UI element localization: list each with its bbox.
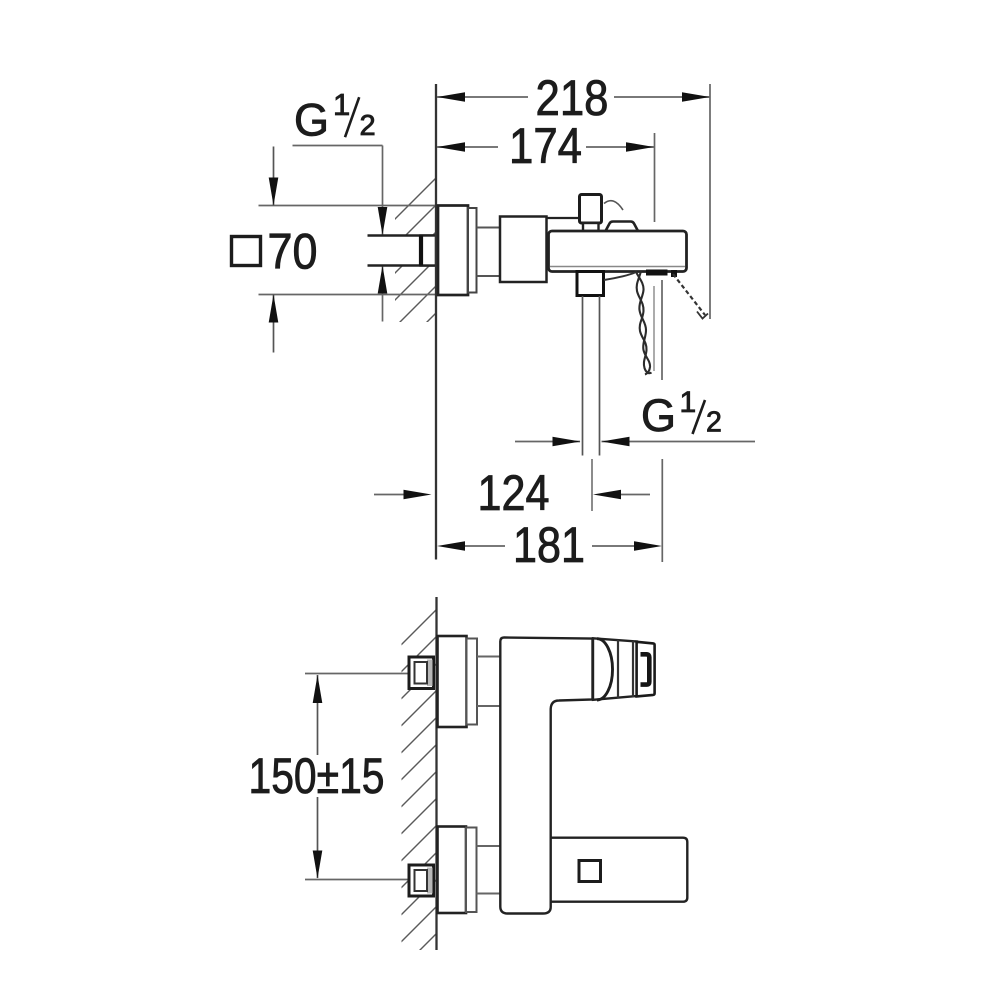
svg-text:174: 174 <box>509 118 582 174</box>
main body (top view) <box>549 231 687 272</box>
escutcheon (top view) <box>438 206 468 296</box>
valve block <box>500 217 547 283</box>
svg-text:2: 2 <box>360 110 376 142</box>
lever tip hook <box>697 312 708 319</box>
spout opening (dark band) <box>646 270 668 276</box>
handle swing arc <box>604 201 623 210</box>
dim 70 upper arrow <box>273 147 275 206</box>
dim 181 <box>437 541 465 551</box>
neck top (bottom view) <box>477 656 501 658</box>
dim 124 <box>374 494 405 496</box>
wall hatch (bottom view) <box>398 606 440 999</box>
handle line 1 <box>617 640 619 698</box>
faucet body outline (bottom view) <box>500 638 593 914</box>
hose connection lines <box>582 296 584 456</box>
escutcheon step <box>468 208 477 293</box>
wall line (bottom view) <box>435 597 437 950</box>
step line under handle <box>547 217 580 219</box>
G 1/2 lower arrow at pipe <box>382 266 384 322</box>
svg-text:1: 1 <box>333 87 350 122</box>
G 1/2 dim line (hose) <box>515 441 580 443</box>
lever root <box>671 270 677 277</box>
braided hose / water stream <box>636 271 651 375</box>
handle stem <box>583 223 599 231</box>
escutcheon bottom step <box>466 828 477 913</box>
cartridge dome <box>606 222 639 232</box>
dim 150 boundary line bottom <box>305 879 410 881</box>
dim 70 lower arrow <box>273 295 275 353</box>
handle cone (bottom view) <box>593 638 637 700</box>
pipe fitting at wall <box>421 236 437 266</box>
escutcheon top (bottom view) <box>438 636 467 727</box>
handle base arc <box>597 639 613 700</box>
svg-text:150±15: 150±15 <box>249 748 385 804</box>
slab right edge through arm <box>550 838 552 902</box>
escutcheon top step <box>467 639 478 725</box>
svg-text:G: G <box>641 390 676 441</box>
svg-text:2: 2 <box>706 407 722 439</box>
diverter square hole <box>579 861 601 882</box>
lever (diagonal, dashed look) <box>673 274 705 315</box>
svg-text:G: G <box>294 95 329 146</box>
dim 150 vertical line and arrows <box>317 675 319 755</box>
G 1/2 leader line <box>293 145 383 147</box>
dim 174 right extension line (lower) <box>661 280 663 380</box>
neck (top view) <box>477 227 501 229</box>
handle line 2 <box>632 641 634 697</box>
dim 174 right extension line (upper) <box>654 133 656 222</box>
handle knob (top view) <box>580 195 602 224</box>
stream edge line <box>653 286 655 371</box>
escutcheon bottom (bottom view) <box>438 827 467 914</box>
handle end inner bracket <box>641 654 650 684</box>
dim 218 line <box>437 96 528 98</box>
supply pipe <box>368 236 438 266</box>
spout arm (bottom view) <box>551 838 688 902</box>
eccentric union (top) <box>409 657 434 689</box>
dim 174 line <box>437 146 498 148</box>
svg-text:1: 1 <box>680 386 697 419</box>
wall line (top view) <box>435 84 437 560</box>
spout curve <box>604 273 635 281</box>
dim 70 boundary line bottom <box>259 294 436 296</box>
svg-text:181: 181 <box>513 517 585 573</box>
dim 70 boundary line top <box>259 205 436 207</box>
body inner bottom line <box>550 266 685 268</box>
shower outlet block <box>577 272 604 296</box>
dim 181 right extension line <box>661 459 663 562</box>
dim 218 right extension line <box>709 84 711 319</box>
svg-text:70: 70 <box>268 224 318 280</box>
eccentric union (bottom) <box>409 865 434 896</box>
neck bottom (bottom view) <box>477 845 501 847</box>
dim 150 boundary line top <box>305 673 410 675</box>
wall hatch (top view) <box>392 176 438 384</box>
svg-text:124: 124 <box>478 465 550 521</box>
handle end cap <box>637 642 655 697</box>
handle base edge line <box>591 638 593 701</box>
square symbol for 70 <box>232 237 261 266</box>
hose centerline extension <box>591 459 593 511</box>
